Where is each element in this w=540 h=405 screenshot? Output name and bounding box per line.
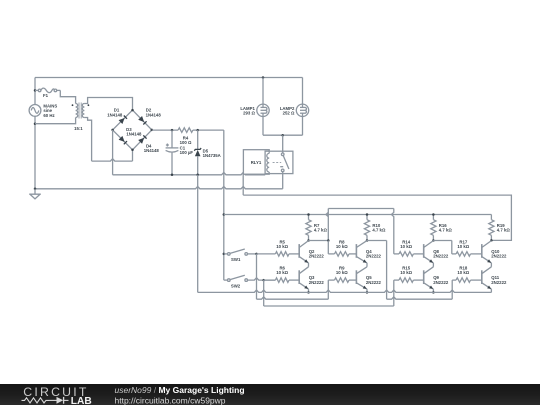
wire Q8 emitter to Q9 collector [432, 263, 434, 267]
junction dot bridge top [131, 109, 134, 112]
resistor R19 [489, 215, 494, 241]
junction dot R16 top [432, 213, 435, 216]
wire R17 feed [452, 241, 456, 254]
relay NC tick [280, 166, 283, 168]
resistor R4 [178, 128, 193, 133]
svg-text:10 kΩ: 10 kΩ [457, 244, 469, 249]
svg-text:100 Ω: 100 Ω [180, 140, 192, 145]
resistor R6 [275, 278, 289, 283]
wire primary bottom return [35, 118, 76, 124]
wire Q11 emitter to rail [490, 289, 492, 292]
wire bridge left vertex down [112, 130, 114, 175]
wire Q4 emitter to Q5 collector [366, 263, 368, 267]
label R7 [314, 223, 328, 233]
svg-text:RLY1: RLY1 [251, 160, 262, 165]
svg-text:10 kΩ: 10 kΩ [336, 244, 348, 249]
wire D5 riser to emitter rail [197, 175, 199, 293]
diode D1 [119, 116, 127, 124]
svg-text:10 kΩ: 10 kΩ [276, 270, 288, 275]
wire R6 to Q3 base [289, 279, 299, 281]
wire Q2 emitter to Q3 collector [308, 263, 310, 267]
svg-text:10 kΩ: 10 kΩ [400, 270, 412, 275]
label R16 [439, 223, 453, 233]
svg-text:2N2222: 2N2222 [433, 254, 449, 259]
lamp LAMP1 [257, 78, 269, 136]
svg-text:http://circuitlab.com/cw59pwp: http://circuitlab.com/cw59pwp [115, 395, 226, 405]
wire emitter rail [198, 290, 492, 292]
label Q8 [433, 249, 449, 259]
transformer T1 primary winding [76, 104, 78, 118]
resistor R18 [456, 278, 470, 283]
wire R17 to Q10 base [471, 253, 482, 255]
wire SW2 bus [264, 280, 394, 306]
svg-text:10 kΩ: 10 kΩ [400, 244, 412, 249]
svg-text:1N4148: 1N4148 [144, 148, 160, 153]
junction dot fuse tap [34, 89, 37, 92]
relay switch contacts [281, 153, 288, 172]
wire Q10 emitter to Q11 collector [490, 263, 492, 267]
junction dot relay switch tap [281, 134, 284, 137]
wire SW2 output [248, 278, 276, 280]
switch SW2 [224, 275, 248, 281]
fuse F1 [35, 88, 60, 93]
label SW2 [231, 283, 241, 288]
junction dot bridge right [151, 129, 154, 132]
svg-text:10 kΩ: 10 kΩ [457, 270, 469, 275]
logo resistor zigzag [22, 398, 50, 403]
transistor Q10 [482, 241, 492, 263]
transistor Q9 [424, 267, 434, 289]
transformer phase dots [72, 104, 90, 106]
wire DC+ riser to switches [223, 130, 225, 280]
junction dot rail1 tap [223, 213, 226, 216]
label Q9 [433, 275, 449, 285]
svg-text:userNo99 / My Garage's Lightin: userNo99 / My Garage's Lighting [115, 385, 245, 395]
junction dot SW1 output [255, 253, 258, 256]
label R14 [400, 239, 412, 249]
label Q11 [491, 275, 507, 285]
wire R5 to Q2 base [289, 253, 299, 255]
svg-text:4.7 kΩ: 4.7 kΩ [497, 228, 511, 233]
wire stage3 collector tap [433, 240, 451, 242]
wire cross-link stage1 to R14 [326, 209, 394, 254]
junction dot R7 bottom [307, 239, 310, 242]
wire relay switch to neutral [282, 172, 284, 189]
wire R9 to Q5 base [349, 279, 356, 281]
wire R14 to Q8 base [413, 253, 423, 255]
resistor R10 [364, 215, 369, 241]
junction dot C1 top [171, 129, 174, 132]
label R9 [336, 266, 348, 276]
junction dot C1 bottom [171, 174, 174, 177]
junction dot R10 bottom [366, 239, 369, 242]
junction dot R7 top [307, 213, 310, 216]
wire neutral rail [35, 186, 283, 188]
svg-text:10 kΩ: 10 kΩ [336, 270, 348, 275]
resistor R14 [399, 252, 413, 257]
svg-text:SW2: SW2 [231, 283, 241, 288]
label D4 [144, 144, 160, 154]
transformer core [79, 103, 81, 119]
relay RLY1 switch box [265, 151, 293, 173]
label Q10 [491, 249, 507, 259]
wire DC+ node [152, 129, 224, 131]
junction dot bridge bottom [131, 149, 134, 152]
label transformer ratio 15:1 [74, 126, 83, 131]
wire long rail to stage4 collector [243, 195, 511, 240]
diode D4 [138, 135, 146, 143]
wire relay riser to collector rail [242, 174, 244, 195]
junction dot Q9 emitter [432, 291, 435, 294]
svg-text:F1: F1 [43, 93, 49, 98]
switch SW1 [224, 249, 257, 255]
diode D2 [138, 116, 146, 124]
svg-text:4.7 kΩ: 4.7 kΩ [372, 228, 386, 233]
wire R15 to Q9 base [413, 279, 423, 281]
wire R8 feed [328, 241, 334, 254]
transformer T1 secondary winding [82, 104, 84, 118]
svg-text:1N4148: 1N4148 [126, 132, 142, 137]
svg-text:1N4148: 1N4148 [146, 112, 162, 117]
svg-text:2N2222: 2N2222 [491, 254, 507, 259]
zener diode D5 [194, 130, 201, 175]
label R8 [336, 239, 348, 249]
label D1 [107, 108, 123, 118]
wire SW2 to R6 [264, 279, 276, 281]
junction dot R10 top [366, 213, 369, 216]
label Q3 [309, 275, 325, 285]
svg-text:100 µF: 100 µF [180, 150, 194, 155]
wire fuse to primary [60, 90, 75, 103]
svg-text:293 Ω: 293 Ω [243, 111, 255, 116]
junction dot R16 bottom [432, 239, 435, 242]
resistor R9 [335, 278, 350, 283]
wire bridge edge upper-right [133, 110, 152, 130]
label RLY1 [251, 160, 262, 165]
wire secondary top to bridge [84, 98, 132, 111]
svg-text:1N4735A: 1N4735A [203, 153, 221, 158]
junction dot stage1 tap [327, 239, 330, 242]
svg-text:2N2222: 2N2222 [309, 280, 325, 285]
label C1 [180, 146, 194, 156]
junction dot D5 bottom [196, 174, 199, 177]
svg-text:60 Hz: 60 Hz [43, 113, 54, 118]
label R18 [457, 266, 469, 276]
label R19 [497, 223, 511, 233]
relay coil [267, 151, 269, 173]
voltage source MAINS [29, 105, 41, 117]
transistor Q3 [299, 267, 308, 289]
transistor Q11 [482, 267, 492, 289]
junction dot SW2 output [262, 279, 265, 282]
wire Q3 emitter to rail [308, 289, 310, 292]
resistor R8 [335, 252, 350, 257]
wire bridge edge upper-left [113, 110, 133, 130]
wire stage2 collector tap [367, 240, 387, 242]
svg-text:10 kΩ: 10 kΩ [276, 244, 288, 249]
label F1 [43, 93, 49, 98]
wire bridge edge lower-left [113, 130, 133, 150]
ground symbol [29, 189, 41, 199]
diode D3 [119, 136, 127, 144]
relay RLY1 body box [243, 150, 269, 175]
wire R8 to Q4 base [349, 253, 356, 255]
wire R18 riser [452, 280, 456, 299]
svg-text:252 Ω: 252 Ω [283, 111, 295, 116]
label Q4 [366, 249, 382, 259]
wire Q9 emitter to rail [432, 289, 434, 292]
resistor R17 [456, 252, 470, 257]
svg-text:2N2222: 2N2222 [366, 254, 382, 259]
wire Q5 emitter to rail [366, 289, 368, 292]
wire R9 riser [328, 280, 334, 299]
wire stage2 to R18 bus [387, 241, 453, 300]
junction dot ground [34, 188, 37, 191]
wire top rail (mains hot to lamps) [35, 77, 303, 79]
wire pull-up supply rail [224, 214, 492, 216]
label R15 [400, 266, 412, 276]
label R10 [372, 223, 386, 233]
wire R18 to Q11 base [471, 279, 482, 281]
svg-text:SW1: SW1 [231, 257, 241, 262]
svg-text:LAB: LAB [71, 396, 92, 405]
wire lamps bottom rail [263, 134, 303, 136]
wire bridge edge lower-right [133, 130, 152, 150]
wire lamp rail to relay switch [282, 135, 284, 153]
junction dot bridge left [111, 129, 114, 132]
svg-text:4.7 kΩ: 4.7 kΩ [314, 228, 328, 233]
svg-text:2N2222: 2N2222 [433, 280, 449, 285]
label MAINS value [43, 104, 57, 118]
resistor R5 [275, 252, 289, 257]
lamp LAMP2 [296, 78, 308, 136]
wire R15 riser [394, 280, 399, 306]
wire stage1 collector tap [309, 240, 329, 242]
resistor R16 [431, 215, 436, 241]
junction dot Q3 emitter [307, 291, 310, 294]
wire mains vertical lower [34, 116, 36, 189]
resistor R15 [399, 278, 413, 283]
logo diode [57, 397, 64, 404]
capacitor C1 [166, 130, 179, 175]
wire DC- rail [113, 172, 266, 174]
transistor Q5 [356, 267, 367, 289]
svg-text:4.7 kΩ: 4.7 kΩ [439, 228, 453, 233]
svg-text:2N2222: 2N2222 [366, 280, 382, 285]
wire R14 feed [394, 253, 399, 255]
resistor R7 [306, 215, 311, 241]
label R17 [457, 239, 469, 249]
junction dot Q5 emitter [366, 291, 369, 294]
relay dashed link [273, 161, 282, 163]
junction dot R19 bottom [490, 239, 493, 242]
label R4 [180, 135, 192, 145]
junction dot primary return [34, 122, 37, 125]
svg-text:2N2222: 2N2222 [309, 254, 325, 259]
label D5 [203, 149, 221, 159]
svg-text:15:1: 15:1 [74, 126, 83, 131]
junction dot D5 top [196, 129, 199, 132]
junction dot SW1 tap [223, 253, 226, 256]
label D2 [146, 108, 162, 118]
svg-text:2N2222: 2N2222 [491, 280, 507, 285]
wire mains vertical upper [34, 78, 36, 105]
label D3 [126, 127, 142, 137]
label LAMP1 [240, 106, 255, 116]
wire SW1 to R5 [257, 253, 276, 255]
svg-text:1N4148: 1N4148 [107, 112, 123, 117]
label SW1 [231, 257, 241, 262]
label LAMP2 [280, 106, 295, 116]
label R5 [276, 239, 288, 249]
footer bar [0, 384, 540, 405]
wire secondary bottom to bridge [84, 118, 132, 162]
transistor Q8 [424, 241, 434, 263]
transistor Q4 [356, 241, 367, 263]
label Q5 [366, 275, 382, 285]
junction dot lamp1 top [262, 76, 265, 79]
label Q2 [309, 249, 325, 259]
label R6 [276, 266, 288, 276]
wire SW1 bus [257, 254, 329, 299]
transistor Q2 [299, 241, 308, 263]
